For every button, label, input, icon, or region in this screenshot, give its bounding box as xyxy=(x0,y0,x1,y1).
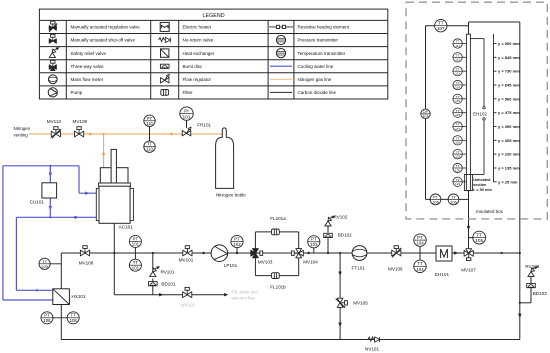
svg-text:MV101: MV101 xyxy=(179,258,194,263)
svg-text:y = 560 mm: y = 560 mm xyxy=(498,96,520,101)
svg-text:Mass flow meter: Mass flow meter xyxy=(71,77,104,82)
svg-text:PT: PT xyxy=(44,313,50,318)
svg-text:PT: PT xyxy=(311,237,317,242)
svg-text:TT: TT xyxy=(417,261,423,266)
svg-text:No-return valve: No-return valve xyxy=(183,38,214,43)
svg-text:y = 900 mm: y = 900 mm xyxy=(498,41,520,46)
svg-text:Heat exchanger: Heat exchanger xyxy=(183,51,215,56)
svg-text:MV107: MV107 xyxy=(461,268,476,273)
svg-text:MV103: MV103 xyxy=(258,260,273,265)
svg-text:106: 106 xyxy=(450,199,457,204)
svg-text:104: 104 xyxy=(416,267,424,272)
svg-text:MV106: MV106 xyxy=(388,266,403,271)
svg-text:110: 110 xyxy=(146,121,153,126)
svg-text:106: 106 xyxy=(432,199,439,204)
svg-text:Carbon dioxide line: Carbon dioxide line xyxy=(298,90,337,95)
svg-text:y = 475 mm: y = 475 mm xyxy=(498,110,520,115)
svg-text:Flow regulator: Flow regulator xyxy=(183,77,212,82)
svg-text:PI: PI xyxy=(184,108,189,114)
svg-text:section: section xyxy=(473,183,487,187)
svg-text:TT: TT xyxy=(438,21,444,26)
svg-text:y = 220 mm: y = 220 mm xyxy=(498,152,520,157)
svg-text:Temperature transmitter: Temperature transmitter xyxy=(298,51,346,56)
svg-text:FR101: FR101 xyxy=(197,122,211,127)
svg-text:y = 135 mm: y = 135 mm xyxy=(498,166,520,171)
svg-text:EH102: EH102 xyxy=(473,112,487,117)
svg-text:112: 112 xyxy=(455,58,460,62)
svg-text:Manually actuated shut-off val: Manually actuated shut-off valve xyxy=(71,38,136,43)
svg-text:Manually actuated regulation v: Manually actuated regulation valve xyxy=(71,25,141,30)
svg-text:109: 109 xyxy=(41,264,48,269)
svg-text:MV104: MV104 xyxy=(303,260,318,265)
svg-text:BD101: BD101 xyxy=(161,282,175,287)
svg-text:y = 25 mm: y = 25 mm xyxy=(498,179,518,184)
svg-text:117: 117 xyxy=(455,127,460,131)
svg-text:Nitrogen gas line: Nitrogen gas line xyxy=(298,77,332,82)
svg-text:113: 113 xyxy=(455,72,460,76)
svg-text:EH101: EH101 xyxy=(435,272,449,277)
svg-text:Nitrogen bottle: Nitrogen bottle xyxy=(216,192,246,197)
svg-text:PT: PT xyxy=(234,236,240,241)
svg-text:114: 114 xyxy=(455,85,460,89)
svg-text:115: 115 xyxy=(455,99,460,103)
svg-text:CU101: CU101 xyxy=(30,199,45,204)
svg-text:MV110: MV110 xyxy=(47,119,62,124)
svg-text:Filter: Filter xyxy=(183,90,194,95)
svg-text:RV101: RV101 xyxy=(161,270,175,275)
svg-text:111: 111 xyxy=(455,44,460,48)
svg-text:121: 121 xyxy=(455,182,460,186)
svg-text:Burst disc: Burst disc xyxy=(183,64,204,69)
svg-text:103: 103 xyxy=(310,242,318,247)
svg-text:Cooling water line: Cooling water line xyxy=(298,64,334,69)
svg-text:108: 108 xyxy=(43,318,51,323)
svg-text:Resistive heating element: Resistive heating element xyxy=(298,25,350,30)
svg-text:118: 118 xyxy=(455,141,460,145)
svg-text:Electric heater: Electric heater xyxy=(183,25,212,30)
svg-text:FL101a: FL101a xyxy=(270,216,286,221)
svg-text:venting: venting xyxy=(14,133,29,138)
svg-text:Three-way valve: Three-way valve xyxy=(71,64,105,69)
svg-text:TT: TT xyxy=(133,260,139,265)
svg-text:FL101b: FL101b xyxy=(270,285,286,290)
svg-text:Pressure transmitter: Pressure transmitter xyxy=(298,38,339,43)
svg-text:101: 101 xyxy=(132,242,140,247)
svg-text:LP101: LP101 xyxy=(224,263,238,268)
svg-text:119: 119 xyxy=(455,155,460,159)
svg-text:LEGEND: LEGEND xyxy=(203,13,225,19)
svg-text:TT: TT xyxy=(71,313,77,318)
svg-text:y = 390 mm: y = 390 mm xyxy=(498,124,520,129)
svg-text:110: 110 xyxy=(146,147,153,152)
svg-text:TT: TT xyxy=(476,232,482,237)
svg-text:PT: PT xyxy=(133,236,139,241)
svg-text:105: 105 xyxy=(475,238,483,243)
svg-text:L = 50 mm: L = 50 mm xyxy=(473,188,492,192)
svg-text:101: 101 xyxy=(182,114,190,120)
svg-text:MV108: MV108 xyxy=(79,261,94,266)
svg-text:101: 101 xyxy=(132,266,140,271)
svg-text:108: 108 xyxy=(70,318,78,323)
svg-text:y = 645 mm: y = 645 mm xyxy=(498,83,520,88)
svg-text:Insulated box: Insulated box xyxy=(476,209,504,214)
svg-text:BD102: BD102 xyxy=(338,232,352,237)
svg-text:RV102: RV102 xyxy=(334,215,348,220)
svg-text:Fill, drain and: Fill, drain and xyxy=(232,289,259,294)
svg-text:107: 107 xyxy=(437,26,445,31)
svg-text:102: 102 xyxy=(233,242,241,247)
svg-text:MV109: MV109 xyxy=(73,119,88,124)
svg-text:Nitrogen: Nitrogen xyxy=(14,126,31,131)
svg-text:120: 120 xyxy=(455,168,460,172)
svg-text:Unheated: Unheated xyxy=(473,178,491,182)
svg-text:y = 730 mm: y = 730 mm xyxy=(498,69,520,74)
svg-text:AC101: AC101 xyxy=(119,224,133,229)
svg-text:PT: PT xyxy=(417,235,423,240)
svg-text:RV103: RV103 xyxy=(525,264,539,269)
svg-text:116: 116 xyxy=(455,113,460,117)
svg-text:104: 104 xyxy=(416,241,424,246)
svg-text:101: 101 xyxy=(423,114,429,118)
svg-text:BD103: BD103 xyxy=(533,291,547,296)
svg-text:Safety relief valve: Safety relief valve xyxy=(71,51,107,56)
svg-text:vacuum line: vacuum line xyxy=(232,296,256,301)
svg-text:FT101: FT101 xyxy=(352,265,366,270)
svg-text:y = 845 mm: y = 845 mm xyxy=(498,55,520,60)
svg-text:MV102: MV102 xyxy=(181,302,196,307)
svg-text:y = 305 mm: y = 305 mm xyxy=(498,138,520,143)
svg-text:NV101: NV101 xyxy=(365,347,379,352)
svg-text:Pump: Pump xyxy=(71,90,83,95)
svg-text:HX101: HX101 xyxy=(72,294,86,299)
svg-text:MV105: MV105 xyxy=(353,301,368,306)
